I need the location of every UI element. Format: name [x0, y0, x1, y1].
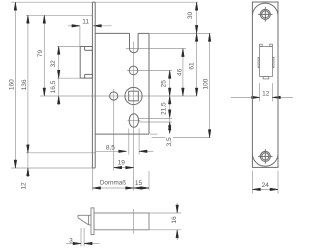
dim line 160 x=15.2 — [14, 2, 16, 168]
cross hole — [110, 92, 118, 100]
dim line 16 x=177.2 — [176, 203, 178, 213]
dim line Dornmass/15 y=181 — [93, 187, 149, 189]
dim line 11 y=25.8 — [68, 25, 80, 27]
ext line Dornmass left x=92.8 — [92, 168, 94, 190]
dim line 3 y=243.5 — [66, 243, 81, 245]
svg-text:16: 16 — [171, 216, 178, 224]
dim line 19 y=167.6 — [114, 167, 134, 169]
ext line top screw y=15.3 — [26, 14, 92, 16]
svg-text:Dornmaß: Dornmaß — [100, 180, 126, 187]
dim line 79 x=44.3 — [43, 15, 45, 96]
ext line latch top y=46.4 — [57, 45, 80, 47]
ext line latch notch center y=48.6 — [126, 48, 186, 50]
arrows 11 — [72, 25, 80, 28]
ext line top y=2.2 — [11, 1, 198, 3]
dim line 25/21.5/3.5 x=170.6 — [169, 70, 171, 133]
arrows Dornmass — [93, 187, 101, 190]
svg-text:136: 136 — [21, 79, 28, 90]
spindle hub circle — [125, 87, 142, 104]
svg-text:32: 32 — [50, 60, 57, 68]
arrows 160 — [14, 2, 17, 10]
top screw — [260, 9, 270, 19]
svg-text:46: 46 — [177, 68, 184, 76]
svg-text:30: 30 — [187, 12, 194, 20]
svg-text:25: 25 — [161, 80, 168, 88]
arrows 25 — [168, 70, 171, 78]
svg-text:15: 15 — [135, 180, 143, 187]
ext line 12 cutout right x=272.4 — [271, 83, 273, 101]
main vertical centerline x=133.6 — [133, 42, 135, 191]
ext line circle1 y=70.5 — [127, 69, 172, 71]
svg-text:12: 12 — [21, 182, 28, 190]
dim line 32/16.5 x=58.7 — [58, 46, 60, 105]
ext line 15 right x=148.9 — [148, 171, 150, 190]
svg-text:3,5: 3,5 — [166, 137, 173, 146]
arrows 100 — [208, 33, 211, 41]
ext line case top right y=33.4 — [150, 32, 211, 34]
oval crosshair horizontal — [128, 120, 141, 122]
lock case — [95, 32, 129, 34]
dim line 30/61 x=196.1 — [196, 2, 198, 96]
circle1 follower hole — [129, 66, 138, 75]
svg-text:3: 3 — [69, 238, 73, 245]
arrows 12 cutout (outside) — [252, 96, 260, 99]
svg-text:21,5: 21,5 — [161, 102, 168, 115]
ext line oval lower y=121.4 — [139, 121, 172, 123]
ext line oval upper y=118.2 — [139, 118, 172, 120]
svg-text:61: 61 — [188, 62, 195, 70]
ext line 24 left x=252.4 — [251, 171, 253, 194]
bottom dome arc — [252, 155, 278, 167]
spindle square — [129, 91, 139, 101]
arrows 16 (outside) — [176, 205, 179, 213]
key oval — [129, 114, 138, 128]
ext line bottom screw y=152.8 — [26, 152, 96, 154]
latch notch — [129, 33, 131, 48]
svg-text:24: 24 — [262, 182, 270, 189]
dim line 12 cutout y=97.4 — [231, 96, 260, 98]
ext line faceplate bottom y=168 — [11, 167, 92, 169]
dim line 24 y=189.4 — [252, 188, 278, 190]
svg-text:19: 19 — [118, 159, 126, 166]
faceplate side view — [91, 2, 93, 168]
arrows 61 — [195, 33, 198, 41]
arrows 19 (inside pointing outward) — [114, 166, 122, 169]
svg-text:160: 160 — [9, 79, 16, 90]
arrows 24 — [252, 188, 260, 191]
svg-text:100: 100 — [203, 78, 210, 89]
svg-text:11: 11 — [82, 19, 89, 26]
arrow 3.5 (below line, pointing up) — [168, 122, 171, 130]
bottom screw — [260, 151, 270, 161]
ext line 24 right x=278 — [277, 171, 279, 194]
ext line 100-bottom y=138.6 — [152, 137, 166, 139]
dim line 136/12 x=28.6 — [27, 15, 29, 177]
arrows 79 — [43, 15, 46, 23]
dim line 100 x=209.6 — [209, 33, 211, 137]
ext line bottom view bottom y=229.8 — [150, 229, 182, 231]
svg-text:8,5: 8,5 — [106, 144, 115, 151]
ext line 12 cutout left x=259.6 — [259, 83, 261, 101]
arrows 8.5 (outside) — [119, 150, 127, 153]
ext line case bottom y=135 — [150, 133, 158, 135]
ext line 11-dim x=79.9 — [79, 26, 81, 47]
arrows 3 (outside) — [73, 242, 81, 245]
top dome arc — [252, 3, 278, 15]
svg-text:79: 79 — [37, 50, 44, 58]
dim line 46 x=183 — [182, 49, 184, 96]
latch bevel bottom view — [78, 214, 91, 216]
ext line latch bottom y=78.2 — [57, 77, 80, 79]
arrows 21.5 — [168, 96, 171, 104]
svg-text:16,5: 16,5 — [50, 80, 57, 93]
ext line oval right down x=139.1 — [138, 129, 140, 155]
dim line 8.5 y=151.3 — [96, 150, 127, 152]
ext line 3-dim left x=81 — [80, 228, 82, 246]
arrows 30 — [195, 2, 198, 10]
latch bolt side view — [80, 47, 92, 79]
arrows 136 — [27, 15, 30, 23]
ext line 3-dim right x=84.1 — [83, 228, 85, 246]
arrow 16.5 bottom (below spindle line, pointing up) — [57, 96, 60, 104]
ext line bottom view top y=213 — [150, 212, 182, 214]
arrows 46 — [182, 49, 185, 57]
cross-hole vertical centerline / 19 ext x=113.7 — [113, 89, 115, 171]
ext line oval left down x=128.8 — [128, 129, 130, 155]
arrow 12 left (below, pointing up) — [27, 168, 30, 176]
arrows 32 — [57, 46, 60, 54]
ext line spindle horizontal y=95.8 — [40, 95, 197, 97]
arrows 15 — [134, 187, 142, 190]
svg-text:12: 12 — [262, 90, 270, 97]
